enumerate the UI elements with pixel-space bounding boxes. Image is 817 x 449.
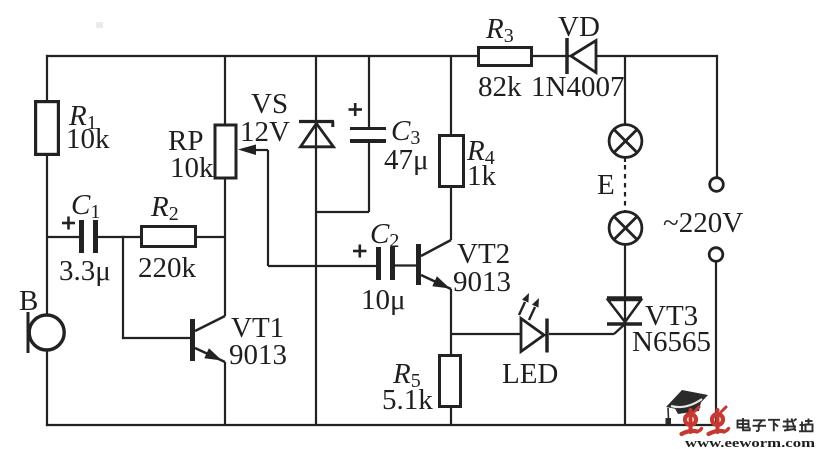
wire left rail — [46, 56, 48, 425]
svg-text:~220V: ~220V — [663, 207, 743, 239]
diode VD — [531, 11, 624, 103]
watermark logo — [666, 390, 816, 449]
resistor R5 — [382, 356, 461, 426]
svg-text:VD: VD — [558, 11, 600, 43]
zener diode VS — [240, 56, 334, 425]
svg-text:10k: 10k — [66, 123, 110, 155]
svg-text:220k: 220k — [138, 252, 197, 284]
svg-text:N6565: N6565 — [632, 326, 711, 358]
svg-text:9013: 9013 — [453, 266, 511, 298]
transistor VT2 — [416, 238, 511, 298]
svg-text:10k: 10k — [170, 152, 214, 184]
svg-text:1k: 1k — [467, 160, 497, 192]
red bug char 2 — [709, 407, 729, 434]
svg-text:10μ: 10μ — [361, 284, 406, 316]
capacitor C3 — [316, 56, 429, 212]
svg-text:LED: LED — [502, 358, 558, 390]
svg-text:www.eeworm.com: www.eeworm.com — [685, 436, 816, 449]
svg-text:1N4007: 1N4007 — [531, 71, 624, 103]
wire VT2 emitter down — [450, 289, 452, 354]
text dianzi xiazaizhan (drawn glyphs) — [738, 418, 813, 431]
terminal 1 — [710, 56, 724, 191]
capacitor C2 — [353, 218, 416, 316]
microphone B — [19, 285, 64, 353]
wire RP wiper arm — [238, 145, 376, 267]
wire dashed between lamps — [597, 158, 625, 212]
transistor VT1 — [190, 312, 287, 425]
resistor R2 — [138, 191, 225, 284]
resistor R1 — [36, 100, 110, 155]
LED — [451, 293, 614, 390]
svg-text:12V: 12V — [240, 116, 290, 148]
capacitor C1 — [47, 189, 140, 287]
svg-text:82k: 82k — [478, 71, 522, 103]
resistor R3 — [478, 13, 532, 103]
svg-text:E: E — [597, 169, 615, 201]
lamp E1 — [609, 56, 642, 157]
svg-text:9013: 9013 — [229, 339, 287, 371]
potentiometer RP — [168, 56, 236, 316]
svg-text:47μ: 47μ — [384, 144, 429, 176]
red bug char 1 — [682, 407, 702, 434]
wire node C1-R2 junction down to VT1 base — [123, 237, 190, 338]
lamp E2 — [609, 212, 642, 245]
svg-text:3.3μ: 3.3μ — [59, 255, 111, 287]
wire bottom rail — [47, 424, 716, 426]
graduation cap — [666, 390, 708, 412]
resistor R4 — [440, 56, 497, 240]
thyristor VT3 — [607, 243, 711, 425]
terminal 2 — [709, 248, 723, 425]
svg-text:B: B — [19, 285, 38, 317]
svg-text:5.1k: 5.1k — [382, 384, 433, 416]
wire top rail — [47, 55, 717, 57]
